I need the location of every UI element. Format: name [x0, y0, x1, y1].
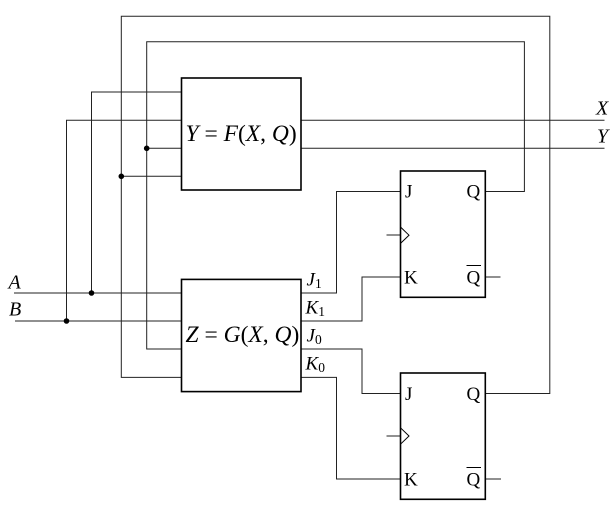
wire J1 to FF1	[301, 192, 401, 294]
JK flip-flop U2	[401, 373, 486, 499]
svg-text:K: K	[404, 268, 418, 289]
wire B branch to F input 2	[67, 120, 182, 321]
combinational block G	[182, 279, 302, 391]
svg-text:Q: Q	[467, 268, 481, 289]
svg-text:Q: Q	[467, 384, 481, 405]
wire output Y	[301, 147, 604, 149]
wire branch node to F input 4	[121, 175, 181, 177]
wire FF1 Qbar stub	[485, 276, 500, 278]
clock wedge U2	[401, 428, 410, 444]
wire output X	[301, 119, 604, 121]
svg-text:X: X	[595, 98, 609, 120]
svg-text:Y = F(X, Q): Y = F(X, Q)	[186, 121, 297, 147]
wire K1 to FF1	[301, 277, 401, 321]
wire feedback inner loop Q1 to F/Z	[147, 42, 525, 349]
svg-text:J: J	[405, 182, 412, 203]
wire FF1 clock stub	[387, 234, 401, 236]
wire K0 to FF2	[301, 377, 401, 479]
JK flip-flop U1	[401, 171, 486, 297]
junction dot on A line	[89, 290, 95, 296]
wire FF2 Qbar stub	[485, 478, 500, 480]
svg-text:Q: Q	[467, 182, 481, 203]
wire branch node to F input 3	[147, 147, 182, 149]
svg-text:A: A	[7, 272, 22, 294]
svg-text:J: J	[405, 384, 412, 405]
wire input B	[16, 320, 182, 322]
clock wedge U1	[401, 227, 410, 243]
svg-text:Q: Q	[467, 470, 481, 491]
junction dot on F input 4	[119, 174, 125, 180]
junction dot on B line	[64, 318, 70, 324]
wire FF2 clock stub	[387, 435, 401, 437]
wire J0 to FF2	[301, 349, 401, 394]
svg-text:Z = G(X, Q): Z = G(X, Q)	[186, 322, 300, 348]
junction dot on F input 3	[144, 146, 150, 152]
svg-text:Y: Y	[597, 126, 610, 148]
wire feedback outer loop Q0 to F/Z	[121, 16, 550, 393]
wire input A	[15, 292, 182, 294]
combinational block F	[182, 78, 302, 190]
wire A branch to F input 1	[92, 92, 182, 293]
svg-text:B: B	[9, 299, 21, 321]
svg-text:K: K	[404, 470, 418, 491]
